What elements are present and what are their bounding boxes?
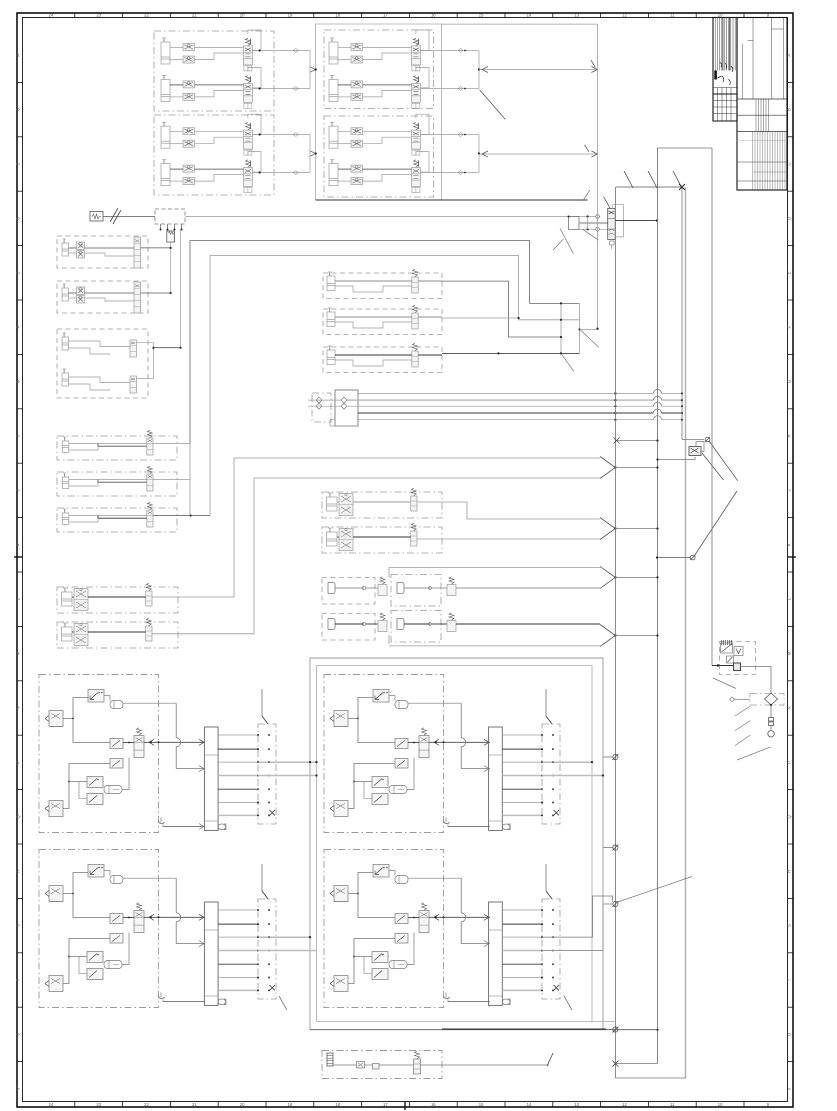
pilot valve B [110,759,123,769]
sensor cylinder box C3 (dashed box) [323,347,442,373]
svg-text:V: V [787,1087,792,1090]
centre mark left border [14,556,23,558]
wire break slash [547,1053,553,1066]
FRL leader diagonals [713,678,736,689]
gripper row2 box 2 (dash-dot) [391,611,441,643]
small cylinder [62,288,69,301]
valve output to bus [615,220,657,222]
wire cylinder to valves [338,47,351,49]
svg-text:18: 18 [335,1102,340,1107]
wire and fitting [335,587,364,589]
wire pair B outputs [421,134,465,136]
title table row line [737,98,787,100]
pilot loop wire [248,30,261,51]
wire M3 to supply drop [154,347,181,349]
svg-text:G: G [16,380,21,383]
svg-text:11: 11 [670,13,675,18]
wire bus y440.5 [615,440,657,442]
lever valve left 1 [334,886,348,902]
manifold1 foot wire [163,826,204,828]
sensor rail 2 X mark [554,810,560,816]
bus bottom links [615,1063,657,1065]
lever valve left 2 [49,801,63,817]
spring return valve [134,736,144,758]
C1 output to junction [442,281,561,337]
valve block 2x2 [339,529,353,551]
sensor rail 4 (dash-dot box) [542,899,560,999]
shuttle fitting 1 [395,876,408,884]
svg-text:22: 22 [144,13,149,18]
roller lever valve 2 [87,952,103,963]
roller lever valve 1 [88,690,104,703]
svg-text:15: 15 [479,1102,484,1107]
lever valve left 1 [49,886,63,902]
FRL supply wire [712,665,734,667]
shuttle fitting 1 [110,701,123,709]
valve island module 2 enclosure (dash-dot) [324,675,444,833]
wire cylinder to valves [170,131,183,133]
svg-text:M: M [16,651,21,655]
manifold 3 port oval [218,999,226,1005]
bus x682 [681,187,683,440]
svg-text:J: J [16,489,21,491]
small cylinder [63,513,69,525]
bus x685 thick supply [685,187,687,1078]
connector chevron 4 [600,625,615,647]
pressure source symbol WW [90,212,103,222]
sensor cylinder box C2 (dashed box) [323,309,442,335]
pneumatic cylinder [329,164,338,186]
pilot box [569,217,580,230]
module internal wires [348,873,373,894]
drain fitting bottom [444,821,450,824]
wires [69,479,147,481]
trunk loop outer (pressure ring) [310,658,603,1030]
svg-text:N: N [787,706,792,709]
svg-text:S: S [787,924,792,927]
svg-text:R: R [787,870,792,873]
wire lower port [363,137,412,144]
sensor rail 3 (dash-dot box) [258,899,276,999]
wire from box up-right to bus [442,1028,606,1030]
gripper symbol [328,583,335,594]
sensor cylinder box C1 (dashed box) [323,273,442,299]
lever valve left 2 [334,976,348,992]
parts table heavy row [713,93,737,95]
shuttle fitting 2 [389,961,407,969]
connector stubs [603,756,613,758]
cylinder return box M4 (dash-dot box) [57,436,177,460]
wire across check valves 1 [308,399,341,401]
junction bundle verticals [560,303,562,353]
svg-text:17: 17 [383,1102,388,1107]
pneumatic cylinder [329,79,338,101]
wire M2 to silencer line [141,292,171,294]
gripper box 2 (dash-dot) [391,575,441,607]
shuttle fitting 1 [395,701,408,709]
wire y557 with connector [657,557,690,559]
air lines to main bus [358,392,654,394]
manifold 1 port oval [218,824,226,830]
parts table heavy column [722,18,724,71]
pilot loop wire [248,67,261,88]
gripper row2 bottom wire [389,645,602,647]
wire y229 [579,228,608,230]
svg-text:12: 12 [622,13,627,18]
valve exhaust below [610,241,615,245]
svg-text:19: 19 [288,13,293,18]
svg-text:16: 16 [431,13,436,18]
sensor rail 1 probe line [261,689,263,716]
island4 output 2 route [542,904,613,951]
leader diagonal from bridge corner [480,90,506,120]
svg-text:14: 14 [527,13,532,18]
wires [337,536,339,538]
shuttle fitting 2 [104,786,122,794]
pneumatic cylinder [161,164,170,186]
wires [69,341,131,347]
wire across check valves 2 [308,405,341,407]
svg-text:24: 24 [49,1102,54,1107]
svg-text:13: 13 [574,1102,579,1107]
wire lower port [195,53,244,60]
wire cylinder to valves [170,47,183,49]
pneumatic cylinder [161,42,170,64]
bus x657 [657,148,659,1064]
svg-text:20: 20 [240,1102,245,1107]
sensor rail 3 probe line [261,864,263,891]
pilot valve A [110,914,123,924]
wires [335,316,412,318]
pneumatic cylinder [329,42,338,64]
end-of-line unit box (dash-dot) [322,1051,442,1079]
svg-text:F: F [787,325,792,328]
M6 output wire to riser [153,515,210,517]
directional control valve [411,83,420,102]
pilot loop wire [248,114,261,135]
drop wire from shuttle with hop over main wire [460,878,462,913]
station group box A1 (dash-dot) [154,31,274,111]
drop wire from shuttle with hop over main wire [460,703,462,738]
svg-text:V: V [16,1087,21,1090]
small tap diamond [730,697,735,702]
sub-circuit box M2 (dash-dot box) [57,281,148,313]
below check valve [770,704,772,706]
X junction mark [679,184,685,190]
directional control valve [411,46,420,65]
svg-text:D: D [16,217,21,220]
wire lower port [195,175,244,182]
svg-text:F: F [16,325,21,328]
module internal wires [348,698,373,719]
valve with spring [412,313,418,329]
gripper box 1 (dashed) [322,578,375,605]
pilot valve loop [696,442,704,452]
drop wire from shuttle with hop over main wire [175,703,177,738]
pilot valve A [395,739,408,749]
silencer symbol [167,231,175,242]
connector chevron 2 [600,518,615,540]
pilot loop wire [416,152,429,173]
svg-text:13: 13 [574,13,579,18]
trunk loop inner (return ring) [317,666,593,1022]
wire pair B outputs [421,50,465,52]
valve with spring [412,277,418,293]
cylinder return box M5 (dash-dot box) [57,472,177,496]
spring return valve [134,911,144,933]
wire and fitting [404,587,430,589]
wire cylinder to valves [338,168,351,170]
wires [335,354,412,356]
chevron tails to bus [615,467,657,469]
sensor rail 1 X mark [270,810,276,816]
filter stripes [721,640,723,645]
svg-text:16: 16 [431,1102,436,1107]
pilot loop wire [416,114,429,135]
valve island module 3 enclosure (dash-dot) [39,850,159,1008]
trunk inner bottom wire [317,1021,616,1023]
small cylinder [62,337,69,350]
end valve with spring [414,1059,421,1074]
parts table lower grid [713,87,737,89]
drain fitting bottom [444,996,450,999]
wires [72,631,74,633]
pilot valve B [395,759,408,769]
valve block 2x2 [74,624,88,646]
top bus horizontal y148 [657,147,712,149]
pilot riser [587,217,589,230]
svg-text:21: 21 [192,13,197,18]
svg-text:15: 15 [479,13,484,18]
check valve diamond [765,693,778,705]
connector symbols on bus [613,754,618,759]
directional control valve [243,83,252,102]
pilot valve A [110,739,123,749]
svg-text:H: H [787,434,792,437]
pilot valve return wire [658,457,696,460]
directional control valve [411,130,420,149]
lever valve left 1 [334,711,348,727]
pilot valve A [395,914,408,924]
svg-text:22: 22 [144,1102,149,1107]
gripper row2 box 1 (dashed) [322,614,375,641]
svg-text:P: P [16,761,21,764]
through wire [333,1064,357,1066]
directional control valve [243,46,252,65]
cylinder [327,532,338,546]
wire cylinder to valves [338,84,351,86]
valve with spring [146,626,152,641]
island4 output route to connector [542,896,613,937]
directional control valve [243,168,252,187]
junction leaders [580,329,599,347]
spring return valve [419,736,429,758]
striped connector [327,1053,333,1066]
valve bypass loop [613,205,624,237]
clamp cylinder box L1 (dash-dot box) [57,587,178,613]
riser wire 1 [190,241,579,444]
connector symbol [705,437,710,442]
svg-text:11: 11 [670,1102,675,1107]
lubricator box V [734,647,743,656]
wires [69,515,147,517]
pilot valve C [372,969,388,980]
M3 outputs join [137,342,154,344]
lever valve left 2 [334,801,348,817]
valve with spring [411,531,417,546]
pilot valve C [87,794,103,805]
svg-text:U: U [787,1033,792,1036]
shut-off valve block [130,340,137,357]
cylinder [327,350,335,365]
flow control valve pair [183,165,195,172]
directional control valve [411,168,420,187]
svg-text:12: 12 [622,1102,627,1107]
roller lever valve 1 [88,865,104,878]
wire M1 to silencer line [141,247,171,249]
island3 X leader [279,996,287,1010]
svg-text:D: D [787,217,792,220]
M4 output wire to riser [153,443,190,445]
connector chevron 3 [600,566,615,588]
svg-text:R: R [16,870,21,873]
valve with spring [146,591,152,606]
wire lower port [195,90,244,97]
air distribution box small (dash-dot) [312,393,331,422]
tap wire [735,698,751,700]
main distribution valve [608,208,616,239]
flow control valve pair [351,128,363,135]
pilot loop wire [416,30,429,51]
main supply wire [103,216,155,218]
valve with spring [411,496,417,511]
flow control valve pair [351,81,363,88]
C3 output to junction [442,352,579,354]
X mark at 1063.6 [612,1061,618,1067]
title block main table [737,18,787,191]
drain fitting bottom [159,821,165,824]
svg-text:10: 10 [718,13,723,18]
pilot valve C [372,794,388,805]
parts table signature scribbles [718,62,733,85]
drain wire to manifold [163,825,205,827]
valve with spring [147,438,153,455]
main line from bridge 1 to right [479,69,597,71]
svg-text:M: M [787,651,792,655]
M5 output wire to riser [153,479,190,481]
stacked valve block [134,282,141,313]
centre mark right border [788,556,796,558]
roller lever valve 1 [373,690,389,703]
title table bottom grid [752,132,754,191]
valve island module 4 enclosure (dash-dot) [324,850,444,1008]
clamp cylinder box C4 (dash-dot box) [322,492,442,518]
pilot valve B [110,934,123,944]
zone ticks left/right border [17,81,23,83]
svg-text:K: K [16,543,21,546]
svg-text:14: 14 [527,1102,532,1107]
sub-circuit box M3 (dashed, two rows) [57,329,148,398]
manifold drop stubs [160,224,162,230]
svg-text:K: K [787,543,792,546]
main line from bridge 2 to right [479,153,597,155]
island2 outputs to trunk [542,761,592,763]
manifold lower wire [330,420,358,426]
wire cylinder to valves [170,84,183,86]
svg-text:21: 21 [192,1102,197,1107]
module internal wires [63,873,88,894]
title table col line [742,44,744,99]
C5 output to chevron [417,538,600,540]
bus x712 [711,148,713,666]
svg-text:A: A [16,54,21,57]
valve island module 1 enclosure (dash-dot) [39,675,159,833]
valve with spring [147,510,153,527]
title block parts-list table [713,18,737,122]
wires [69,377,131,383]
roller lever valve 1 [373,865,389,878]
svg-text:E: E [16,271,21,274]
svg-text:18: 18 [335,13,340,18]
supply break slashes [110,208,118,222]
flow control valve pair [183,81,195,88]
lever valve left 2 [49,976,63,992]
cylinder [327,276,335,291]
shut-off valve block [130,376,137,393]
wire lower port [363,90,412,97]
leader diagonals near assembly [553,239,564,250]
valve block 2x2 [74,589,88,611]
gripper row1 top wire [389,567,602,569]
inline valve 2 [447,585,456,596]
small cylinder [62,243,69,256]
clamp cylinder box C5 (dash-dot box) [322,527,442,553]
station group box A2 (dash-dot) [154,115,274,195]
svg-text:C: C [16,162,21,165]
connector chevron 1 [600,457,615,479]
centre mark bottom border [404,1102,406,1110]
valve with spring [412,351,418,367]
stacked valve block [134,237,141,268]
pneumatic cylinder [161,79,170,101]
small cylinder [63,441,69,453]
wire and fitting [404,623,430,625]
manifold 2 port wires [502,734,542,736]
lever valve left 1 [49,711,63,727]
wire pair A outputs to bridge 1 [253,50,310,52]
svg-text:G: G [787,380,792,383]
air distribution box main [335,390,358,426]
drain box [727,656,734,663]
shuttle fitting 2 [104,961,122,969]
valve pair [77,242,85,250]
manifold 2 body [489,727,503,830]
cylinder [62,627,73,641]
wires [72,596,74,598]
pilot valve B [395,934,408,944]
roller lever valve 2 [372,952,388,963]
svg-text:23: 23 [96,13,101,18]
drop wire from shuttle with hop over main wire [175,878,177,913]
L2 output route [152,478,600,634]
manifold 4 body [489,902,503,1005]
svg-text:S: S [16,924,21,927]
long leader from connector 904 [618,877,692,903]
shuttle fitting 1 [110,876,123,884]
supply drop to lower boxes [180,230,182,348]
C2 output to junction [442,317,519,319]
pilot loop wire [416,67,429,88]
